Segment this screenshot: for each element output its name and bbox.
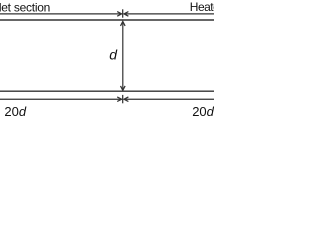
dimension line: inlet section span [0,13,121,15]
dimension line: left 20d span [0,98,121,100]
arrowhead right-pointing at bottom tick [117,97,121,102]
svg-text:20d: 20d [4,104,26,119]
svg-text:Inlet section: Inlet section [0,0,50,14]
tick separating inlet/heated dimension lines [122,9,124,17]
arrowhead left-pointing at bottom tick [124,97,128,102]
bottom channel wall [0,90,214,92]
svg-text:Heated section: Heated section [190,0,214,14]
dimension line: channel height d [122,22,124,90]
dimension line: right 20d span [125,98,214,100]
svg-text:d: d [109,47,118,63]
arrowhead right-pointing at top tick [117,12,121,17]
svg-text:20d: 20d [192,104,214,119]
arrowhead left-pointing at top tick [124,12,128,17]
top channel wall [0,19,214,21]
tick separating bottom 20d dimension lines [122,95,124,103]
arrowhead up-pointing of d dimension [121,22,126,26]
dimension line: heated section span [125,13,214,15]
arrowhead down-pointing of d dimension [121,86,126,90]
